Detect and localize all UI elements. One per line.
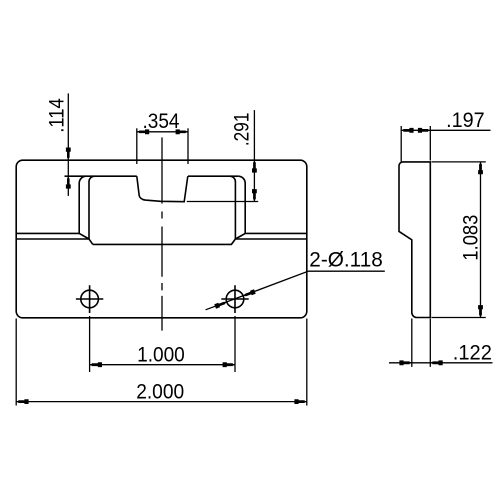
dim 2.000 line and extensions [16,319,307,406]
step line H2 right [235,238,306,240]
pocket wall outer right fillet+vertical [238,176,245,233]
arrowhead dim 1.083 upper [478,162,483,174]
vertical centerline front view [161,137,163,330]
svg-text:.354: .354 [143,110,180,133]
pocket bottom line H3 [93,239,236,244]
svg-text:2-Ø.118: 2-Ø.118 [309,248,383,271]
dim 1.000 line [90,364,235,366]
arrowhead dim .197 left [401,128,413,133]
dim .122 line and extensions [389,319,493,367]
svg-text:.291: .291 [231,113,254,147]
arrowhead leader arrow lower [214,302,227,309]
hole left extension line [89,316,91,372]
arrowhead dim .114 lower [66,176,71,188]
svg-text:.122: .122 [453,342,492,365]
arrowhead dim 1.083 lower [478,305,483,317]
svg-text:1.000: 1.000 [137,343,185,366]
arrowhead dim .122 left [399,360,411,365]
step line H2 left [16,239,93,244]
hole right circle [226,290,244,308]
pocket wall inner right fillet+vertical [230,176,236,239]
arrowhead dim .122 right [430,360,442,365]
pocket top edge left segment [65,175,137,177]
arrowhead dim 2.000 right [294,399,306,404]
hole left circle [81,290,99,308]
dim .197 line and extensions [401,126,490,162]
svg-text:1.083: 1.083 [460,215,483,261]
dim .291 line and extension [187,110,258,202]
arrowhead dim .354 right [176,129,188,134]
plate outline front view [16,160,307,318]
arrowhead dim .354 left [137,129,149,134]
pocket top edge right segment [188,175,238,177]
leader 2-dia.118 [206,271,385,310]
svg-text:.114: .114 [45,98,68,133]
dim 1.083 line and extensions [432,162,486,318]
arrowhead dim 1.000 right [223,362,235,367]
step line H1 right [245,232,307,234]
hole left crosshair [76,285,103,313]
dim .354 line and extensions [137,128,188,164]
notch outline [137,176,188,202]
dim .114 line [67,93,69,195]
step diagonal right [235,233,245,239]
svg-text:2.000: 2.000 [136,381,184,404]
arrowhead leader arrow upper [243,289,256,296]
pocket wall inner left fillet+vertical [89,176,95,239]
hole right extension line [234,316,236,372]
svg-text:.197: .197 [446,109,485,132]
arrowhead dim .291 upper [252,160,257,172]
arrowhead dim .291 lower [252,189,257,201]
step line H1 left [16,233,89,239]
arrowhead dim 1.000 left [90,362,102,367]
pocket wall outer left fillet+vertical [79,176,86,233]
hole right crosshair [221,285,248,313]
arrowhead dim .197 right [418,128,430,133]
side view profile [399,162,430,318]
arrowhead dim .114 upper [66,148,71,160]
arrowhead dim 2.000 left [16,399,28,404]
